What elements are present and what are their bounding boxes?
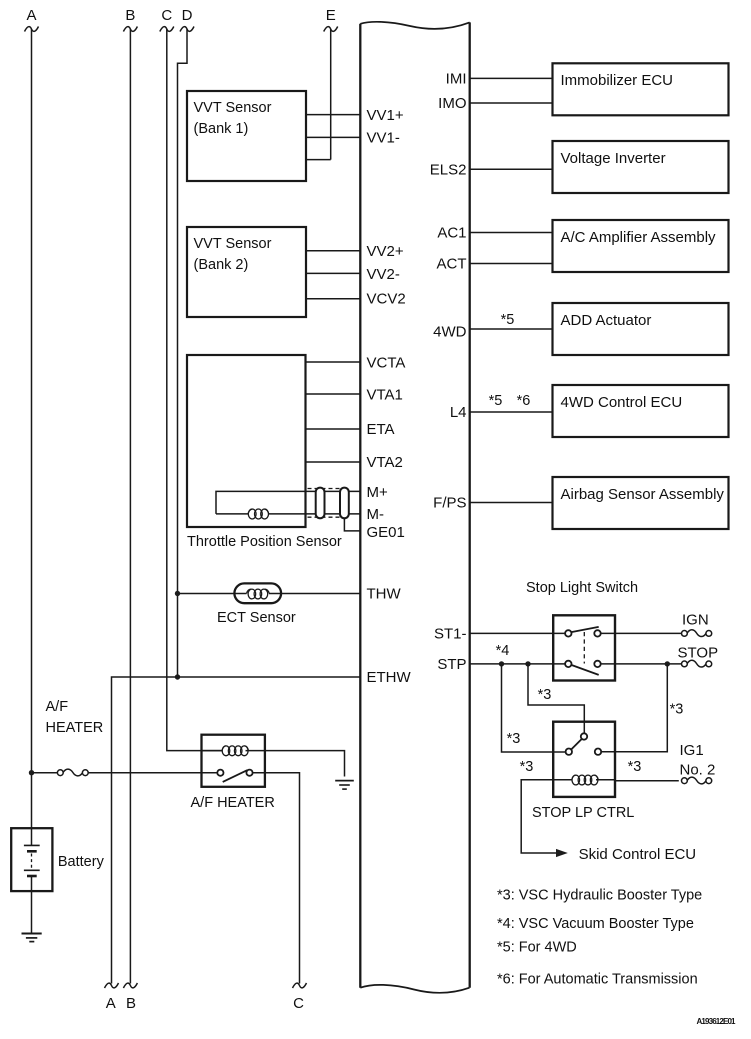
svg-text:E: E: [326, 7, 336, 24]
4WD control ECU box: [553, 385, 729, 437]
svg-text:VVT Sensor: VVT Sensor: [194, 236, 272, 252]
svg-text:A: A: [26, 7, 36, 24]
svg-text:Immobilizer ECU: Immobilizer ECU: [561, 72, 674, 89]
svg-text:*3: *3: [520, 759, 534, 775]
arrow to skid control ECU: [556, 849, 568, 857]
svg-text:THW: THW: [367, 586, 402, 603]
junction dot STOP return: [665, 661, 670, 666]
svg-text:ELS2: ELS2: [430, 162, 467, 179]
wire IMO: [470, 102, 553, 104]
wire D vertical with jog: [178, 29, 188, 677]
svg-text:Stop Light Switch: Stop Light Switch: [526, 580, 638, 596]
wire VCV2: [306, 298, 360, 300]
junction dot A/fuse: [29, 770, 34, 775]
svg-text:*5: *5: [501, 312, 515, 328]
node C (top connector): [160, 7, 174, 32]
wire VV2-: [306, 272, 360, 274]
wire STP branch to relay blade: [528, 664, 584, 733]
svg-text:*3: VSC Hydraulic Booster Type: *3: VSC Hydraulic Booster Type: [497, 888, 702, 904]
svg-text:VV2+: VV2+: [367, 243, 404, 260]
svg-text:A/C Amplifier Assembly: A/C Amplifier Assembly: [561, 229, 717, 246]
wire C vertical to A/F heater coil: [167, 29, 222, 751]
A/C amplifier assembly box: [553, 220, 729, 272]
wire E vertical to VVT1 stub: [330, 29, 332, 160]
svg-text:*6: *6: [517, 393, 531, 409]
svg-text:IGN: IGN: [682, 612, 709, 629]
wire B vertical: [129, 29, 131, 984]
node A (bottom connector): [105, 983, 119, 1012]
svg-text:IG1: IG1: [680, 742, 704, 759]
svg-text:STOP: STOP: [678, 645, 719, 662]
label A/F HEATER (left): [46, 699, 104, 736]
wire battery to ground: [31, 876, 33, 934]
wire STP branch to relay contact: [502, 664, 566, 752]
wire VTA1: [306, 393, 361, 395]
svg-text:C: C: [293, 995, 304, 1012]
wire GE01: [344, 518, 360, 531]
svg-text:IMI: IMI: [446, 71, 467, 88]
svg-text:GE01: GE01: [367, 524, 405, 541]
svg-text:Skid Control ECU: Skid Control ECU: [579, 846, 697, 863]
wire ACT: [470, 263, 553, 265]
junction dot D/ETHW: [175, 674, 180, 679]
svg-text:ADD Actuator: ADD Actuator: [561, 312, 652, 329]
stop LP CTRL relay K2: [532, 722, 634, 821]
svg-text:Airbag Sensor Assembly: Airbag Sensor Assembly: [561, 486, 725, 503]
wire ETHW: [112, 677, 361, 984]
wire ST1- to switch: [470, 632, 565, 634]
ground G2 (A/F heater relay): [335, 781, 354, 790]
svg-text:*3: *3: [670, 702, 684, 718]
wire relay coil left to skid control: [521, 780, 571, 853]
wire relay coil to ground: [265, 751, 345, 777]
svg-text:No. 2: No. 2: [680, 762, 716, 779]
ECT sensor B3 capsule: [217, 583, 296, 626]
svg-text:Voltage Inverter: Voltage Inverter: [561, 150, 666, 167]
svg-text:A/F HEATER: A/F HEATER: [191, 795, 275, 811]
svg-text:M+: M+: [367, 484, 388, 501]
stop light switch S1: [553, 615, 615, 680]
wire VV2+: [306, 250, 360, 252]
wire switch to STOP: [601, 663, 682, 665]
A/F HEATER relay K1: [191, 735, 275, 811]
svg-text:ECT Sensor: ECT Sensor: [217, 610, 296, 626]
svg-text:*5: *5: [489, 393, 503, 409]
wire AC1: [470, 232, 553, 234]
connector pill P1: [316, 488, 325, 519]
svg-text:4WD: 4WD: [433, 324, 467, 341]
svg-text:VVT Sensor: VVT Sensor: [194, 100, 272, 116]
fuse F1 (inline break symbol): [57, 769, 88, 776]
svg-text:A193612E01: A193612E01: [697, 1017, 737, 1026]
junction dot STP branch 1: [499, 661, 504, 666]
wire VVT1 to E: [306, 159, 331, 161]
wire VCTA: [306, 361, 361, 363]
svg-text:STOP LP CTRL: STOP LP CTRL: [532, 805, 634, 821]
node A (top connector): [25, 7, 39, 32]
immobilizer ECU box: [553, 63, 729, 115]
svg-text:B: B: [126, 995, 136, 1012]
wire THW: [178, 593, 361, 595]
svg-text:*3: *3: [538, 687, 552, 703]
wire battery feed to relay: [32, 772, 218, 774]
svg-text:A/F: A/F: [46, 699, 69, 715]
svg-text:C: C: [161, 7, 172, 24]
svg-text:*4: *4: [496, 643, 510, 659]
node B (bottom connector): [123, 983, 137, 1012]
voltage inverter box: [553, 141, 729, 193]
dashed connector links: [308, 489, 342, 518]
wire 4WD: [470, 328, 553, 330]
airbag sensor assembly box: [553, 477, 729, 529]
svg-text:D: D: [182, 7, 193, 24]
svg-text:(Bank 1): (Bank 1): [194, 121, 249, 137]
svg-text:VCV2: VCV2: [367, 291, 406, 308]
svg-text:VCTA: VCTA: [367, 355, 406, 372]
VVT sensor (Bank 1) B1 box: [187, 91, 306, 181]
IG1 break symbol: [682, 777, 712, 784]
throttle position sensor TPS box: [187, 355, 342, 550]
svg-text:B: B: [125, 7, 135, 24]
node B (top connector): [123, 7, 137, 32]
svg-text:A: A: [106, 995, 116, 1012]
svg-text:*3: *3: [628, 759, 642, 775]
battery BT1: [11, 828, 104, 891]
wire relay coil right to IG1: [615, 780, 679, 782]
wire VTA2: [306, 461, 361, 463]
svg-text:VV1-: VV1-: [367, 130, 400, 147]
wire VV1-: [306, 136, 360, 138]
svg-text:Throttle Position Sensor: Throttle Position Sensor: [187, 534, 342, 550]
svg-text:Battery: Battery: [58, 854, 105, 870]
node C (bottom connector): [293, 983, 307, 1012]
node D (top connector): [180, 7, 194, 32]
connector pill P2: [340, 488, 349, 519]
junction dot D/THW: [175, 591, 180, 596]
wire switch to IGN: [601, 632, 682, 634]
STOP break symbol: [682, 660, 712, 667]
svg-text:*4: VSC Vacuum Booster Type: *4: VSC Vacuum Booster Type: [497, 916, 694, 932]
svg-text:ETA: ETA: [367, 421, 395, 438]
wire M- with motor coil M1: [216, 513, 360, 515]
wire L4: [470, 411, 553, 413]
svg-text:L4: L4: [450, 404, 467, 421]
IGN break symbol: [682, 630, 712, 637]
svg-text:4WD Control ECU: 4WD Control ECU: [561, 394, 683, 411]
ADD actuator box: [553, 303, 729, 355]
svg-text:ETHW: ETHW: [367, 669, 412, 686]
svg-text:STP: STP: [437, 656, 466, 673]
wire ELS2: [470, 168, 553, 170]
svg-text:ST1-: ST1-: [434, 626, 467, 643]
wire IMI: [470, 77, 553, 79]
label IG1 No. 2: [680, 742, 716, 779]
ground G1 (battery): [22, 934, 42, 942]
wire relay output to C bottom: [253, 773, 300, 984]
wire relay to STOP junction: [601, 664, 667, 752]
wire ETA: [306, 428, 361, 430]
junction dot STP branch 2: [525, 661, 530, 666]
motor coil M1 on M- wire: [248, 509, 269, 519]
wire VV1+: [306, 114, 360, 116]
svg-text:*5: For 4WD: *5: For 4WD: [497, 940, 577, 956]
svg-text:VTA1: VTA1: [367, 387, 403, 404]
ECM main block U1 (engine control module outline): [360, 22, 469, 993]
wire A vertical: [31, 29, 33, 845]
svg-text:F/PS: F/PS: [433, 495, 466, 512]
wire STP to switch: [470, 663, 565, 665]
svg-text:VTA2: VTA2: [367, 454, 403, 471]
svg-text:ACT: ACT: [437, 256, 467, 273]
svg-text:VV1+: VV1+: [367, 107, 404, 124]
svg-text:IMO: IMO: [438, 95, 466, 112]
wire M+ motor loop: [216, 491, 360, 514]
svg-text:(Bank 2): (Bank 2): [194, 257, 249, 273]
node E (top connector): [324, 7, 338, 32]
svg-text:M-: M-: [367, 506, 385, 523]
svg-text:*6: For Automatic Transmission: *6: For Automatic Transmission: [497, 972, 698, 988]
svg-text:HEATER: HEATER: [46, 720, 104, 736]
svg-text:VV2-: VV2-: [367, 266, 400, 283]
wire F/PS: [470, 502, 553, 504]
VVT sensor (Bank 2) B2 box: [187, 227, 306, 317]
svg-text:AC1: AC1: [437, 225, 466, 242]
svg-text:*3: *3: [507, 731, 521, 747]
